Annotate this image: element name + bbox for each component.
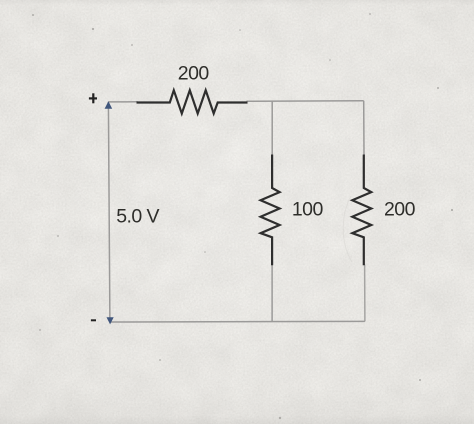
svg-text:100: 100	[292, 198, 324, 220]
svg-text:200: 200	[384, 198, 416, 220]
svg-text:5.0 V: 5.0 V	[116, 205, 159, 227]
svg-text:200: 200	[178, 63, 210, 85]
